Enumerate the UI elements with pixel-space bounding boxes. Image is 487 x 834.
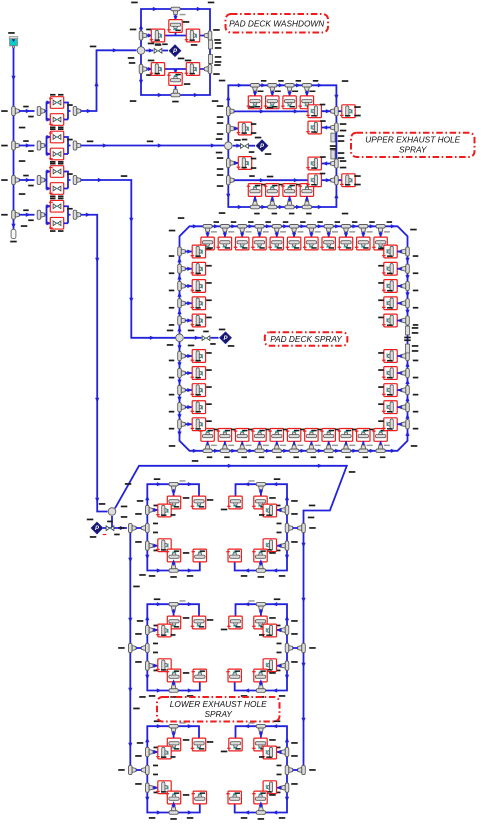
tee junction pad ring left 10	[178, 420, 186, 429]
wire pad right stem 6	[397, 355, 402, 357]
wire row2 to bottom nozzle	[175, 69, 177, 90]
spray nozzle pad ring bottom 2	[218, 429, 231, 442]
wire cluster 3 right inlet	[293, 769, 298, 771]
tee junction cluster 1 left side lower	[146, 541, 154, 550]
wire pad top stem 8	[328, 232, 330, 237]
wire pad top stem 10	[362, 232, 364, 237]
valve B branch 4	[50, 217, 63, 229]
wire pad right stem 10	[397, 423, 402, 425]
wire right row1	[322, 110, 343, 112]
wire top stem 4	[306, 91, 308, 96]
spray nozzle cluster 3 left bottom A	[167, 791, 180, 804]
wire row2	[147, 68, 205, 70]
spray nozzle pad ring top 8	[322, 237, 335, 250]
wire pad bottom stem 8	[328, 441, 330, 445]
tee junction pad ring right 2	[402, 264, 410, 273]
wire circle to valve upper	[233, 145, 240, 147]
wire cluster 3 right top stem	[260, 731, 262, 738]
wire cluster 1 side lower stub	[153, 545, 158, 547]
wire pad left stem 3	[185, 285, 192, 287]
spray nozzle pad ring top 9	[339, 237, 352, 250]
spray nozzle pad ring right 5	[384, 314, 397, 327]
tee junction header branch 1	[12, 106, 20, 115]
tee junction cluster 1 right side lower	[281, 541, 289, 550]
wire valves to collector branch 2	[64, 137, 71, 154]
annotation UPPER EXHAUST HOLE SPRAY	[351, 133, 475, 157]
pipe upper exhaust ring	[228, 85, 336, 207]
spray nozzle pad ring bottom 1	[201, 429, 214, 442]
spray nozzle pad ring top 7	[305, 237, 318, 250]
tee junction cluster 3 left inlet	[142, 765, 150, 774]
spray nozzle upper ring bottom 3	[283, 184, 296, 197]
wire cluster 1 right inlet	[293, 527, 298, 529]
pipe branch 3 to pad deck spray	[81, 180, 177, 338]
wire cluster 2 left bottom stem	[173, 682, 175, 685]
tee junction cluster 1 right inlet	[285, 523, 293, 532]
tee junction pad ring bottom 8	[324, 445, 333, 453]
tee junction pad ring right 5	[402, 316, 410, 325]
wire row2 stub	[234, 128, 238, 130]
wire splitter to valves branch 2	[45, 137, 51, 154]
spray nozzle cluster 1 left top A	[167, 496, 180, 509]
wire pad bottom stem 3	[241, 441, 243, 445]
spray nozzle pad ring top 11	[374, 237, 387, 250]
tee junction pad ring top 3	[238, 225, 247, 233]
pipe cluster 2 right loop	[235, 604, 287, 690]
wire valves to collector branch 4	[64, 206, 71, 223]
node pad ring inlet circle	[176, 334, 184, 342]
valve upper ring isolation	[241, 144, 249, 149]
wire pad top stem 1	[207, 232, 209, 237]
valve B branch 3	[50, 183, 63, 195]
tee junction collector branch 1	[73, 106, 81, 115]
spray nozzle pad ring right 8	[384, 384, 397, 397]
tee junction cluster 1 left bottom	[169, 565, 178, 573]
node washdown inlet circle	[137, 47, 145, 55]
wire cluster 3 left top stem	[173, 731, 175, 738]
wire pad left stem 1	[185, 251, 192, 253]
spray nozzle cluster 1 right side upper	[263, 504, 276, 517]
pressure node washdown	[169, 45, 181, 57]
pipe branch 4 to lower exhaust sprays	[81, 215, 108, 512]
wire right row2	[322, 127, 331, 129]
tee junction upper ring right row5	[331, 176, 339, 185]
pipe branch 3 feed	[19, 179, 35, 181]
tee junction upper ring right row1	[331, 107, 339, 116]
wire cluster 1 left bottom stem	[173, 562, 175, 565]
spray nozzle cluster 2 right side lower	[263, 659, 276, 672]
tee junction cluster 3 right header	[298, 765, 306, 774]
spray nozzle washdown row1 A	[151, 29, 164, 42]
tee junction splitter branch 3	[37, 175, 45, 184]
tee junction cluster 3 left side lower	[146, 783, 154, 792]
tee junction collector branch 3	[73, 175, 81, 184]
wire pad right stem 8	[397, 389, 402, 391]
spray nozzle upper ring top 2	[266, 96, 279, 109]
pipe cluster 3 left loop	[147, 726, 200, 812]
tee junction pad ring top 10	[359, 225, 368, 233]
tee junction pad ring bottom 2	[220, 445, 229, 453]
spray nozzle cluster 1 right side lower	[263, 539, 276, 552]
wire pad top stem 6	[293, 232, 295, 237]
spray nozzle cluster 1 left side upper	[158, 504, 171, 517]
spray nozzle pad ring left 8	[192, 384, 205, 397]
tee junction pad ring top 2	[220, 225, 229, 233]
wire pad left stem 2	[185, 268, 192, 270]
valve washdown isolation	[154, 48, 162, 53]
valve pad ring isolation	[202, 336, 210, 341]
spray nozzle washdown top center	[169, 20, 182, 33]
tee junction cluster 3 left bottom	[169, 807, 178, 815]
wire cluster 3 right side upper stub	[277, 751, 282, 753]
svg-text:PAD DECK SPRAY: PAD DECK SPRAY	[270, 334, 343, 344]
spray nozzle pad ring bottom 6	[287, 429, 300, 442]
tee junction splitter branch 4	[37, 210, 45, 219]
spray nozzle cluster 2 left side upper	[158, 624, 171, 637]
spray nozzle cluster 1 left bottom B	[193, 549, 206, 562]
wire circle down to valve row	[103, 516, 127, 528]
dead end cap	[11, 229, 16, 238]
wire pad bottom stem 2	[224, 441, 226, 445]
spray nozzle pad ring bottom 5	[270, 429, 283, 442]
tee junction cluster 1 right bottom	[256, 565, 265, 573]
tee junction upper ring bottom 4	[302, 201, 311, 209]
tee junction header branch 3	[12, 175, 20, 184]
pipe upper ring interior row1	[234, 110, 308, 112]
wire bottom stem 1	[254, 196, 256, 201]
tee junction pad ring top 4	[255, 225, 264, 233]
tee junction cluster 2 left inlet	[142, 643, 150, 652]
tee junction pad ring bottom 10	[359, 445, 368, 453]
tee junction washdown row1 left	[139, 31, 147, 40]
wire right row5	[322, 179, 343, 181]
tee junction upper ring top 2	[268, 84, 277, 92]
spray nozzle cluster 2 left top B	[192, 616, 205, 629]
wire cluster 2 right side upper stub	[277, 629, 282, 631]
svg-text:SPRAY: SPRAY	[204, 709, 233, 719]
spray nozzle outboard right row5	[342, 174, 355, 187]
wire cluster 2 side lower stub	[153, 665, 158, 667]
tee junction cluster 1 right header	[298, 523, 306, 532]
wire pad bottom stem 4	[259, 441, 261, 445]
tee junction cluster 3 right bottom	[256, 807, 265, 815]
tee junction upper ring top 1	[250, 84, 259, 92]
tee junction cluster 3 left top	[169, 724, 178, 732]
spray nozzle pad ring bottom 9	[339, 429, 352, 442]
tee junction pad ring top 5	[272, 225, 281, 233]
spray nozzle washdown row2 A	[151, 63, 164, 76]
wire cluster 1 side upper stub	[153, 509, 158, 511]
tee junction pad ring left 2	[178, 264, 186, 273]
spray nozzle cluster 1 right bottom A	[254, 549, 267, 562]
wire pad bottom stem 5	[276, 441, 278, 445]
tee junction cluster 2 right side upper	[281, 625, 289, 634]
wire top tee to nozzle	[175, 15, 177, 20]
spray nozzle pad ring left 3	[192, 280, 205, 293]
wire pad left stem 5	[185, 320, 192, 322]
wire cluster 2 side upper stub	[153, 629, 158, 631]
spray nozzle cluster 1 left top B	[192, 496, 205, 509]
tee junction pad ring left 1	[178, 247, 186, 256]
wire cluster 3 side lower stub	[153, 787, 158, 789]
spray nozzle pad ring top 2	[218, 237, 231, 250]
wire bottom stem 2	[271, 196, 273, 201]
tee junction cluster 3 right top	[256, 724, 265, 732]
tee junction cluster 2 right header	[298, 643, 306, 652]
wire cluster 1 right side upper stub	[277, 509, 282, 511]
wire cluster 3 right side lower stub	[277, 787, 282, 789]
wire pad top stem 3	[241, 232, 243, 237]
tee junction washdown row1 right	[204, 31, 212, 40]
spray nozzle upper ring top 1	[248, 96, 261, 109]
wire pad top stem 2	[224, 232, 226, 237]
spray nozzle upper ring top 3	[283, 96, 296, 109]
wire pad left stem 7	[185, 372, 192, 374]
annotation LOWER EXHAUST HOLE SPRAY	[157, 697, 280, 722]
wire pad top stem 7	[310, 232, 312, 237]
wire valve to pressure node pad	[211, 337, 219, 339]
wire pad left stem 9	[185, 406, 192, 408]
tee junction washdown top	[171, 7, 180, 15]
pipe cluster 2 left loop	[147, 604, 200, 690]
tee junction pad ring bottom 4	[255, 445, 264, 453]
tee junction upper ring left row1	[227, 107, 235, 116]
node upper ring inlet circle	[225, 142, 233, 150]
tee junction cluster 1 right top	[256, 482, 265, 490]
spray nozzle pad ring right 6	[384, 350, 397, 363]
branch stub upper right mid2	[331, 150, 335, 159]
tee junction upper ring right row2	[331, 123, 339, 132]
wire splitter to valves branch 1	[45, 103, 51, 120]
wire pad right stem 5	[397, 320, 402, 322]
spray nozzle pad ring bottom 7	[305, 429, 318, 442]
wire cluster 2 left inlet	[136, 647, 141, 649]
tee junction cluster 2 right side lower	[281, 661, 289, 670]
svg-text:SPRAY: SPRAY	[399, 145, 428, 155]
tee junction pad ring right 8	[402, 386, 410, 395]
branch stub washdown right upper	[208, 40, 212, 49]
pipe branch 2 to upper exhaust ring	[81, 145, 225, 147]
wire bottom stem 4	[306, 196, 308, 201]
spray nozzle cluster 3 right top A	[254, 738, 267, 751]
wire cluster 1 right top stem	[260, 489, 262, 496]
spray nozzle pad ring top 3	[236, 237, 249, 250]
wire cluster 1 left top stem	[173, 489, 175, 496]
pipe branch 1 feed	[19, 110, 35, 112]
tee junction upper ring bottom 3	[285, 201, 294, 209]
tee junction pad ring right 6	[402, 351, 410, 360]
wire pad bottom stem 10	[362, 441, 364, 445]
wire pad left stem 4	[185, 302, 192, 304]
tee junction cluster 3 right side upper	[281, 747, 289, 756]
tee junction pad ring bottom 1	[203, 445, 212, 453]
wire cluster 3 left bottom stem	[173, 804, 175, 807]
wire circle to valve	[146, 50, 154, 52]
spray nozzle pad ring bottom 10	[357, 429, 370, 442]
wire top stem 1	[254, 91, 256, 96]
tee junction upper ring top 3	[285, 84, 294, 92]
tee junction upper ring bottom 1	[250, 201, 259, 209]
tee junction pad ring bottom 3	[238, 445, 247, 453]
spray nozzle cluster 2 left bottom A	[167, 669, 180, 682]
pipe cluster 1 right loop	[235, 484, 287, 570]
pipe lower riser top run	[115, 466, 347, 770]
tee junction upper ring left row5	[227, 176, 235, 185]
pressure node lower	[91, 522, 103, 534]
wire cluster 1 right side lower stub	[277, 545, 282, 547]
wire pad bottom stem 7	[310, 441, 312, 445]
spray nozzle pad ring bottom 8	[322, 429, 335, 442]
tee junction pad ring bottom 9	[341, 445, 350, 453]
tee junction pad ring right 7	[402, 368, 410, 377]
spray nozzle cluster 3 right bottom A	[254, 791, 267, 804]
spray nozzle upper ring bottom 2	[266, 184, 279, 197]
pipe branch 4 feed	[19, 214, 35, 216]
tee junction pad ring left 7	[178, 368, 186, 377]
spray nozzle pad ring right 4	[384, 297, 397, 310]
tee junction pad ring left 9	[178, 403, 186, 412]
tee junction pad ring right 10	[402, 420, 410, 429]
spray nozzle pad ring right 10	[384, 418, 397, 431]
wire row1	[147, 35, 205, 37]
tee junction upper ring bottom 2	[268, 201, 277, 209]
spray nozzle cluster 3 right bottom B	[228, 791, 241, 804]
reservoir supply tank	[9, 37, 18, 49]
spray nozzle cluster 3 right side lower	[263, 781, 276, 794]
valve A branch 1	[50, 97, 63, 109]
wire valves to collector branch 3	[64, 172, 71, 189]
spray nozzle upper ring left row4	[238, 157, 251, 170]
svg-text:UPPER EXHAUST HOLE: UPPER EXHAUST HOLE	[365, 135, 460, 145]
pressure node upper ring	[256, 140, 268, 152]
wire pad top stem 5	[276, 232, 278, 237]
spray nozzle upper ring bottom 4	[300, 184, 313, 197]
wire valve to pressure node upper	[249, 145, 255, 147]
branch stub pad right upper	[405, 326, 409, 335]
tee junction cluster 1 right side upper	[281, 505, 289, 514]
wire cluster 3 side upper stub	[153, 751, 158, 753]
tee junction cluster 1 left top	[169, 482, 178, 490]
tee junction cluster 1 left inlet	[142, 523, 150, 532]
wire top stem 2	[271, 91, 273, 96]
wire pad right stem 2	[397, 268, 402, 270]
tee junction upper ring top 4	[302, 84, 311, 92]
wire cluster 3 right bottom stem	[260, 804, 262, 807]
tee junction cluster 3 left side upper	[146, 747, 154, 756]
tee junction upper ring right row4	[331, 159, 339, 168]
spray nozzle cluster 2 left side lower	[158, 659, 171, 672]
pipe pad deck spray ring	[180, 226, 408, 450]
tee junction pad ring top 8	[324, 225, 333, 233]
wire pad left stem 8	[185, 389, 192, 391]
spray nozzle washdown row2 B	[186, 63, 199, 76]
spray nozzle pad ring left 9	[192, 401, 205, 414]
tee junction pad ring top 9	[341, 225, 350, 233]
tee junction cluster 2 right bottom	[256, 685, 265, 693]
tee junction cluster 2 left side upper	[146, 625, 154, 634]
valve lower isolation	[106, 526, 114, 531]
wire cluster 2 right inlet	[293, 647, 298, 649]
spray nozzle pad ring left 7	[192, 367, 205, 380]
wire row4 stub	[234, 162, 238, 164]
annotation PAD DECK WASHDOWN	[226, 14, 329, 33]
pipe upper ring interior row5	[234, 179, 308, 181]
wire valve to pressure node	[163, 50, 169, 52]
node lower distribution circle	[108, 508, 116, 516]
tee junction washdown row2 left	[139, 64, 147, 73]
spray nozzle cluster 2 left bottom B	[193, 669, 206, 682]
wire pad right stem 1	[397, 251, 402, 253]
spray nozzle cluster 3 left side upper	[158, 746, 171, 759]
wire pad bottom stem 1	[207, 441, 209, 445]
branch stub pad right lower	[405, 344, 409, 353]
spray nozzle washdown row1 B	[186, 29, 199, 42]
wire cluster 1 left inlet	[136, 527, 141, 529]
spray nozzle pad ring right 2	[384, 262, 397, 275]
spray nozzle cluster 2 right top A	[254, 616, 267, 629]
valve B branch 1	[50, 114, 63, 126]
spray nozzle pad ring top 4	[253, 237, 266, 250]
spray nozzle pad ring bottom 4	[253, 429, 266, 442]
wire pad bottom stem 11	[380, 441, 382, 445]
wire pad right stem 4	[397, 302, 402, 304]
spray nozzle pad ring right 1	[384, 245, 397, 258]
valve B branch 2	[50, 148, 63, 160]
spray nozzle washdown bottom center	[169, 73, 182, 86]
tee junction pad ring left 4	[178, 299, 186, 308]
tee junction pad ring left 3	[178, 281, 186, 290]
wire circle to valve pad	[184, 337, 202, 339]
spray nozzle cluster 3 left side lower	[158, 781, 171, 794]
tee junction pad ring top 6	[290, 225, 299, 233]
spray nozzle cluster 1 right top A	[254, 496, 267, 509]
wire pad left stem 6	[185, 355, 192, 357]
tee junction cluster 2 left header	[129, 643, 137, 652]
spray nozzle upper ring top 4	[300, 96, 313, 109]
branch stub washdown right lower	[208, 55, 212, 64]
spray nozzle pad ring left 4	[192, 297, 205, 310]
spray nozzle upper ring bottom 1	[248, 184, 261, 197]
spray nozzle cluster 1 left bottom A	[167, 549, 180, 562]
tee junction header branch 2	[12, 141, 20, 150]
pipe main supply header	[13, 48, 15, 230]
wire pad bottom stem 9	[345, 441, 347, 445]
tee junction cluster 3 left header	[129, 765, 137, 774]
spray nozzle upper ring left row2	[238, 122, 251, 135]
spray nozzle pad ring right 9	[384, 401, 397, 414]
spray nozzle cluster 1 right top B	[229, 496, 242, 509]
spray nozzle pad ring left 5	[192, 314, 205, 327]
valve A branch 3	[50, 166, 63, 178]
valve A branch 2	[50, 131, 63, 143]
wire top stem 3	[289, 91, 291, 96]
tee junction collector branch 2	[73, 141, 81, 150]
branch stub upper right mid1	[331, 133, 335, 142]
spray nozzle cluster 2 left top A	[167, 616, 180, 629]
spray nozzle upper ring right row5	[308, 174, 321, 187]
spray nozzle cluster 3 left top B	[192, 738, 205, 751]
pipe left cluster header	[129, 528, 131, 770]
tee junction cluster 1 left side upper	[146, 505, 154, 514]
tee junction pad ring top 1	[203, 225, 212, 233]
wire pad right stem 3	[397, 285, 402, 287]
tee junction cluster 1 left header	[129, 523, 137, 532]
annotation PAD DECK SPRAY	[265, 332, 348, 346]
wire pad bottom stem 6	[293, 441, 295, 445]
pressure node pad ring	[220, 332, 232, 344]
tee junction pad ring bottom 11	[376, 445, 385, 453]
spray nozzle pad ring left 6	[192, 350, 205, 363]
